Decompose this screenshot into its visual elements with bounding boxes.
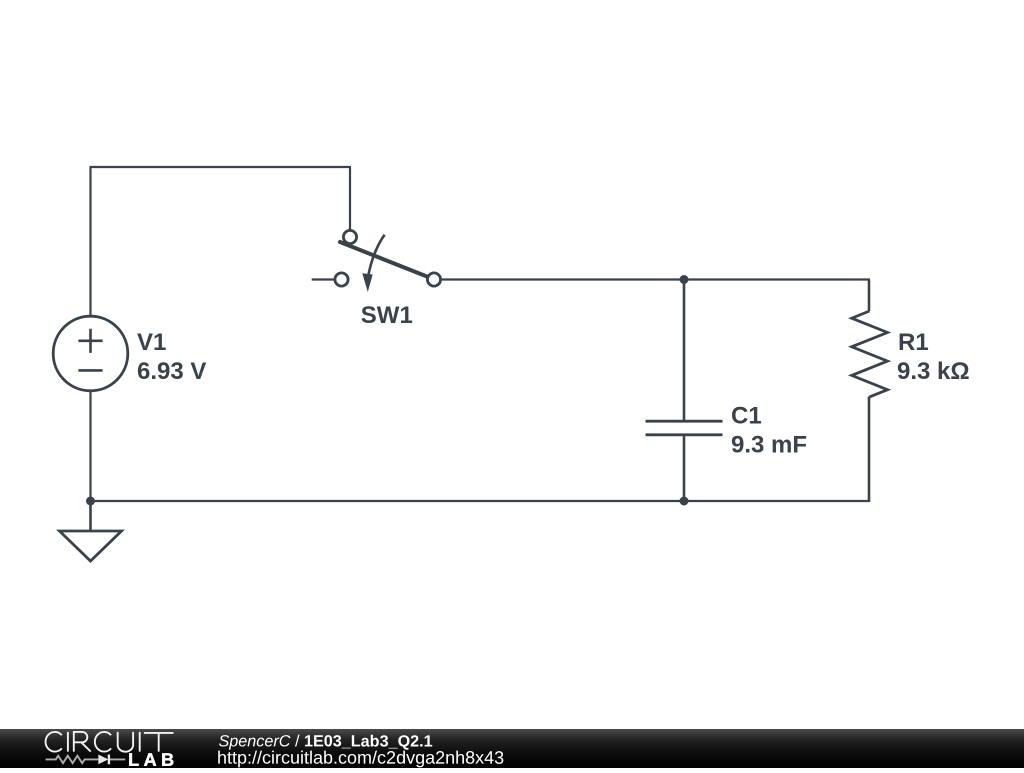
wire switch top lead xyxy=(349,167,351,230)
wire top horizontal rail xyxy=(90,166,352,168)
wire top-left vertical (V1 top to top rail) xyxy=(89,167,91,316)
footer CircuitLab logo CIRCUIT letters xyxy=(46,732,174,752)
resistor R1 xyxy=(852,311,888,397)
wire switch output to resistor corner xyxy=(442,278,870,280)
wire C1 top lead xyxy=(683,280,686,421)
footer bar xyxy=(0,729,1024,768)
wire resistor bottom lead xyxy=(868,397,871,503)
wire bottom rail xyxy=(91,500,871,502)
node junction V1-ground-bottom rail xyxy=(86,497,95,506)
wire C1 bottom lead xyxy=(683,436,686,502)
voltage source V1 xyxy=(53,316,128,391)
capacitor C1 xyxy=(646,421,723,435)
svg-text:SW1: SW1 xyxy=(361,302,413,329)
svg-text:LAB: LAB xyxy=(128,750,179,768)
wire V1 bottom lead xyxy=(89,391,91,502)
svg-text:C1: C1 xyxy=(731,403,762,430)
footer logo schematic squiggle (resistor and diode) xyxy=(46,755,126,765)
switch SW1 xyxy=(335,230,441,292)
svg-text:9.3 mF: 9.3 mF xyxy=(731,432,807,459)
svg-text:6.93 V: 6.93 V xyxy=(137,358,206,385)
wire resistor top lead xyxy=(868,280,871,312)
wire switch left stub xyxy=(312,278,334,280)
svg-text:V1: V1 xyxy=(137,329,166,356)
svg-text:http://circuitlab.com/c2dvga2n: http://circuitlab.com/c2dvga2nh8x43 xyxy=(217,748,504,768)
svg-text:9.3 kΩ: 9.3 kΩ xyxy=(897,358,970,385)
node junction C1 bottom xyxy=(680,497,689,506)
node junction C1 top xyxy=(680,275,689,284)
svg-text:R1: R1 xyxy=(898,329,929,356)
wire ground lead xyxy=(89,501,92,531)
ground xyxy=(60,531,122,561)
